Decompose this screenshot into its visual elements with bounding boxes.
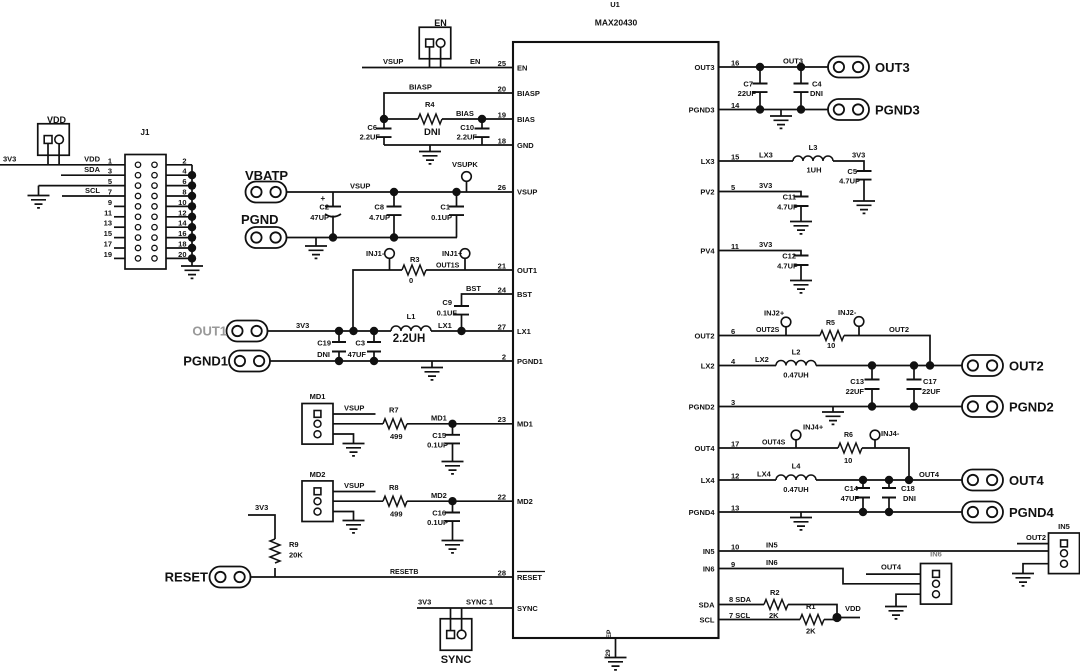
- svg-text:0.1UP: 0.1UP: [427, 441, 448, 450]
- capacitor C13 22UF: [871, 366, 873, 380]
- svg-text:10: 10: [827, 341, 835, 350]
- op-amp U1 MAX20430 IC body: [513, 42, 719, 638]
- wire LX2 pin 4 to L2: [719, 365, 777, 367]
- node INJ2- test point: [854, 317, 864, 327]
- wire PGND4 pin 13 to connector: [719, 511, 962, 513]
- svg-text:VDD: VDD: [845, 604, 861, 613]
- svg-text:SYNC: SYNC: [517, 604, 538, 613]
- capacitor C8 4.7UF: [390, 188, 398, 196]
- wire 3V3 rail to J1 pin1: [0, 164, 125, 166]
- svg-text:PGND2: PGND2: [1009, 400, 1054, 415]
- connector PGND4: [962, 502, 1003, 523]
- svg-text:5: 5: [108, 177, 112, 186]
- svg-text:C13: C13: [850, 377, 864, 386]
- wire L3 to C5 3V3: [833, 161, 864, 171]
- wire LX1 from OUT1 connector to pin 27: [268, 330, 392, 332]
- svg-text:SDA: SDA: [84, 165, 100, 174]
- J1 pin 8 circle: [152, 193, 157, 198]
- svg-text:C1: C1: [440, 203, 450, 212]
- svg-text:C7: C7: [743, 80, 753, 89]
- svg-text:GND: GND: [517, 141, 534, 150]
- junction MD2 C16: [448, 497, 456, 505]
- svg-text:BIAS: BIAS: [456, 109, 474, 118]
- wire MD2 pin1 VSUP: [333, 491, 376, 493]
- wire J1 left stub pin 9: [114, 205, 125, 207]
- wire SYNC jumper pins up: [450, 608, 452, 631]
- svg-text:EN: EN: [470, 57, 480, 66]
- svg-text:3V3: 3V3: [852, 151, 865, 160]
- node INJ2+ test point: [781, 317, 791, 327]
- junction OUT3 C4: [797, 63, 805, 71]
- svg-text:VDD: VDD: [84, 155, 100, 164]
- ground IN6 header: [885, 607, 907, 619]
- capacitor C14 47UF: [862, 480, 864, 488]
- svg-text:OUT1: OUT1: [517, 266, 537, 275]
- svg-text:22UF: 22UF: [922, 387, 941, 396]
- wire OUT4 branch to LX4 node: [862, 448, 909, 480]
- junction LX2 OUT2 branch: [926, 361, 934, 369]
- ground J1 bus: [181, 266, 203, 278]
- wire 3V3 to SYNC jumper: [417, 607, 451, 609]
- wire IN6 header pin3 to ground: [896, 594, 920, 606]
- connector PGND1: [229, 351, 270, 372]
- svg-text:RESET: RESET: [165, 570, 208, 585]
- svg-text:C12: C12: [782, 252, 796, 261]
- capacitor C4 DNI: [800, 67, 802, 84]
- wire VDD jumper pins to 3V3 rail: [47, 144, 49, 165]
- capacitor C16 0.1UF: [452, 501, 454, 512]
- svg-text:U1: U1: [610, 0, 620, 9]
- svg-text:VDD: VDD: [47, 115, 67, 125]
- svg-text:C3: C3: [355, 339, 365, 348]
- svg-text:LX4: LX4: [757, 470, 772, 479]
- svg-text:C16: C16: [432, 509, 446, 518]
- J1 pin 2 circle: [152, 162, 157, 167]
- svg-text:OUT4: OUT4: [694, 444, 715, 453]
- wire PGND3 pin 14 to connector: [719, 109, 829, 111]
- svg-text:INJ4+: INJ4+: [803, 423, 824, 432]
- connector PGND2: [962, 396, 1003, 417]
- junction BIAS left: [380, 115, 388, 123]
- svg-text:2.2UF: 2.2UF: [360, 133, 381, 142]
- svg-text:EP: EP: [606, 629, 613, 638]
- connector MD1 header: [302, 404, 333, 445]
- wire PV4 pin 11 to C12: [719, 251, 802, 256]
- svg-text:RESETB: RESETB: [390, 569, 418, 576]
- junction PGND1 C3: [370, 357, 378, 365]
- svg-text:2K: 2K: [806, 627, 816, 636]
- svg-text:C5: C5: [847, 167, 857, 176]
- node INJ1+ test point: [460, 249, 470, 259]
- wire IN5 header pin3 to ground: [1023, 564, 1049, 574]
- wire MD1 pin2 to R7: [333, 423, 383, 425]
- svg-text:R4: R4: [425, 100, 435, 109]
- resistor R6 10: [838, 443, 862, 453]
- wire L4 to OUT4 connector: [816, 479, 962, 481]
- svg-text:3V3: 3V3: [759, 181, 772, 190]
- wire J1 left stub pin 19: [114, 257, 125, 259]
- svg-text:C8: C8: [374, 203, 384, 212]
- junction PGND2 C17: [910, 402, 918, 410]
- svg-text:IN6: IN6: [703, 565, 715, 574]
- svg-text:R1: R1: [806, 602, 816, 611]
- svg-text:INJ1-: INJ1-: [366, 249, 385, 258]
- svg-text:OUT4: OUT4: [881, 563, 902, 572]
- svg-text:1: 1: [108, 156, 112, 165]
- resistor R8 499: [383, 496, 407, 506]
- capacitor C7 22UF: [759, 67, 761, 84]
- svg-text:1UH: 1UH: [806, 166, 821, 175]
- svg-text:OUT3: OUT3: [694, 63, 714, 72]
- wire SCL to J1 pin7: [62, 195, 125, 197]
- svg-text:L2: L2: [792, 348, 801, 357]
- connector OUT2: [962, 355, 1003, 376]
- svg-text:MD1: MD1: [517, 420, 533, 429]
- junction PGND3 C7: [756, 105, 764, 113]
- svg-text:LX3: LX3: [759, 151, 773, 160]
- U1 RESET pin overbar: [517, 571, 545, 573]
- svg-text:PGND3: PGND3: [875, 103, 920, 118]
- svg-text:C11: C11: [783, 193, 796, 202]
- svg-text:L4: L4: [792, 462, 802, 471]
- capacitor C2 47UF polarized: [332, 192, 334, 207]
- svg-text:4.7UP: 4.7UP: [777, 262, 798, 271]
- ground PGND2: [832, 407, 834, 413]
- wire J1 right pins to ground bus: [166, 164, 192, 166]
- svg-text:C2: C2: [319, 203, 329, 212]
- svg-text:L3: L3: [809, 143, 818, 152]
- svg-text:SCL: SCL: [700, 616, 715, 625]
- ground C5: [853, 201, 875, 213]
- junction PGND1 C19: [335, 357, 343, 365]
- svg-text:0.1UF: 0.1UF: [437, 309, 458, 318]
- wire EN jumper pins down: [429, 47, 431, 68]
- svg-text:BST: BST: [466, 284, 481, 293]
- J1 pin 9 circle: [135, 204, 140, 209]
- svg-text:C18: C18: [901, 484, 915, 493]
- wire OUT3 pin 16 to connector: [719, 66, 829, 68]
- svg-text:7 SCL: 7 SCL: [729, 611, 751, 620]
- connector EN jumper: [419, 27, 451, 59]
- wire VSUP to EN pin 25: [362, 67, 513, 69]
- svg-text:10: 10: [844, 456, 852, 465]
- svg-text:VSUP: VSUP: [383, 57, 403, 66]
- junction PGND3 C4: [797, 105, 805, 113]
- svg-text:22UF: 22UF: [738, 89, 757, 98]
- svg-text:MD2: MD2: [310, 470, 326, 479]
- wire R1 to VDD node: [824, 619, 837, 621]
- svg-text:13: 13: [104, 219, 112, 228]
- svg-text:OUT4: OUT4: [1009, 473, 1044, 488]
- svg-text:VSUP: VSUP: [344, 481, 364, 490]
- svg-text:19: 19: [104, 250, 112, 259]
- wire VSUP to pin 26: [287, 191, 514, 193]
- svg-text:47UF: 47UF: [348, 350, 367, 359]
- inductor L4 0.47UH: [776, 475, 816, 480]
- svg-text:3: 3: [108, 167, 112, 176]
- svg-text:C14: C14: [844, 484, 859, 493]
- svg-text:R3: R3: [410, 255, 420, 264]
- svg-text:LX2: LX2: [755, 355, 769, 364]
- svg-text:BIASP: BIASP: [409, 83, 432, 92]
- J1 pin 5 circle: [135, 183, 140, 188]
- junction BIAS right: [478, 115, 486, 123]
- svg-text:INJ2-: INJ2-: [838, 308, 857, 317]
- J1 pin 7 circle: [135, 193, 140, 198]
- svg-text:LX1: LX1: [438, 321, 452, 330]
- capacitor C3 47UF: [373, 331, 375, 342]
- svg-text:R7: R7: [389, 406, 399, 415]
- wire J1 left stub pin 13: [114, 226, 125, 228]
- wire BIAS to pin 19: [482, 118, 513, 120]
- wire PV2 pin 5 to C11: [719, 192, 802, 197]
- wire LX3 pin 15 to L3: [719, 160, 794, 162]
- svg-text:C9: C9: [442, 298, 452, 307]
- svg-text:INJ2+: INJ2+: [764, 309, 785, 318]
- svg-text:3V3: 3V3: [759, 240, 772, 249]
- resistor R5 10: [820, 331, 844, 341]
- wire RESETB to pin 28: [251, 576, 514, 578]
- svg-text:47UP: 47UP: [310, 213, 329, 222]
- ground PGND1: [431, 361, 433, 368]
- svg-text:SCL: SCL: [85, 186, 100, 195]
- wire PGND1 to pin 2: [270, 360, 513, 362]
- svg-text:R6: R6: [844, 432, 853, 439]
- svg-text:VSUPK: VSUPK: [452, 160, 478, 169]
- J1 pin 15 circle: [135, 235, 140, 240]
- svg-text:IN5: IN5: [766, 541, 778, 550]
- svg-text:DNI: DNI: [424, 127, 440, 138]
- svg-text:2.2UH: 2.2UH: [393, 333, 426, 345]
- capacitor C6 2.2UF: [383, 119, 385, 129]
- svg-text:4.7UP: 4.7UP: [369, 213, 390, 222]
- wire SDA pin 8 to R2: [719, 604, 765, 606]
- capacitor C17 22UF: [913, 366, 915, 380]
- connector OUT1: [227, 321, 268, 342]
- svg-text:OUT2: OUT2: [1009, 359, 1044, 374]
- svg-text:VSUP: VSUP: [350, 182, 370, 191]
- wire OUT2S pin 6 to R5: [719, 335, 821, 337]
- resistor R9 20K: [270, 539, 280, 563]
- wire VDD stub: [837, 617, 860, 619]
- svg-text:RESET: RESET: [517, 573, 542, 582]
- junction J1 bus: [188, 192, 196, 200]
- J1 pin 4 circle: [152, 173, 157, 178]
- svg-text:OUT2: OUT2: [1026, 533, 1046, 542]
- junction J1 bus: [188, 202, 196, 210]
- wire OUT4S pin 17 to R6: [719, 447, 839, 449]
- wire LX4 pin 12 to L4: [719, 479, 777, 481]
- svg-text:INJ1+: INJ1+: [442, 249, 463, 258]
- junction J1 bus: [188, 223, 196, 231]
- svg-text:26: 26: [498, 183, 506, 192]
- svg-text:MD1: MD1: [310, 392, 326, 401]
- svg-text:7: 7: [108, 188, 112, 197]
- svg-text:C19: C19: [317, 339, 331, 348]
- svg-text:IN6: IN6: [930, 550, 942, 559]
- svg-text:INJ4-: INJ4-: [881, 429, 900, 438]
- svg-text:R8: R8: [389, 483, 399, 492]
- junction LX2 C17: [910, 361, 918, 369]
- svg-text:0.47UH: 0.47UH: [783, 485, 808, 494]
- J1 pin 6 circle: [152, 183, 157, 188]
- wire J1 left stub pin 15: [114, 237, 125, 239]
- svg-text:LX3: LX3: [701, 157, 715, 166]
- wire SCL pin 7 to R1: [719, 619, 801, 621]
- junction VDD pullup node: [832, 613, 841, 622]
- svg-text:MD2: MD2: [517, 497, 533, 506]
- capacitor C11 4.7UF: [794, 197, 809, 207]
- wire L2 to OUT2 connector: [816, 365, 962, 367]
- svg-text:4.7UP: 4.7UP: [777, 203, 798, 212]
- svg-text:LX1: LX1: [517, 327, 531, 336]
- junction PGND2 C13: [868, 402, 876, 410]
- svg-text:EN: EN: [517, 64, 527, 73]
- ground C12: [790, 281, 812, 293]
- connector J1 header: [125, 155, 166, 270]
- connector VDD jumper: [38, 124, 70, 156]
- capacitor C9 0.1UF: [454, 306, 469, 315]
- junction J1 bus: [188, 171, 196, 179]
- svg-text:LX2: LX2: [701, 362, 715, 371]
- J1 pin 3 circle: [135, 173, 140, 178]
- svg-text:R5: R5: [826, 320, 835, 327]
- ground IN5 header: [1012, 574, 1034, 586]
- connector PGND input: [246, 227, 287, 248]
- svg-text:0.1UP: 0.1UP: [427, 518, 448, 527]
- ground at 3V3/J1 area: [38, 186, 40, 196]
- svg-text:OUT4: OUT4: [919, 470, 940, 479]
- junction J1 bus: [188, 244, 196, 252]
- junction LX4 C18: [885, 476, 893, 484]
- capacitor C19 DNI: [338, 331, 340, 342]
- resistor R4: [384, 118, 418, 120]
- svg-text:VBATP: VBATP: [245, 168, 288, 183]
- svg-text:OUT3: OUT3: [875, 60, 910, 75]
- wire J1 ground bus vertical: [191, 165, 193, 266]
- junction LX1 C19: [335, 327, 343, 335]
- ground PGND3: [780, 110, 782, 117]
- svg-text:VSUP: VSUP: [517, 188, 537, 197]
- wire 3V3 to R9: [248, 515, 275, 539]
- svg-text:23: 23: [498, 415, 506, 424]
- wire R9 to RESETB: [274, 568, 276, 577]
- junction J1 bus: [188, 213, 196, 221]
- junction LX1 C9: [457, 327, 465, 335]
- svg-text:47UF: 47UF: [841, 494, 860, 503]
- svg-text:IN5: IN5: [1058, 522, 1070, 531]
- J1 pin 17 circle: [135, 245, 140, 250]
- J1 pin 13 circle: [135, 225, 140, 230]
- wire GND to pin 18: [384, 144, 513, 146]
- wire MD1 pin3 to ground: [333, 434, 354, 444]
- wire MD2 pin2 to R8: [333, 500, 383, 502]
- wire OUT1S to pin 21: [353, 270, 402, 331]
- ground C16: [442, 541, 464, 553]
- svg-text:3V3: 3V3: [3, 155, 16, 164]
- svg-text:PGND1: PGND1: [517, 357, 543, 366]
- ground MD2 pin3: [343, 521, 365, 533]
- svg-text:C4: C4: [812, 80, 822, 89]
- wire J1 left stub pin 11: [114, 216, 125, 218]
- svg-text:3V3: 3V3: [296, 321, 309, 330]
- svg-text:OUT2: OUT2: [694, 332, 714, 341]
- svg-text:SDA: SDA: [699, 601, 715, 610]
- J1 pin 16 circle: [152, 235, 157, 240]
- capacitor C5 4.7UF: [857, 171, 872, 180]
- connector VBATP: [246, 182, 287, 203]
- svg-text:0.47UH: 0.47UH: [783, 371, 808, 380]
- svg-text:0.1UP: 0.1UP: [431, 213, 452, 222]
- wire BIASP pin 20: [384, 93, 513, 119]
- svg-text:499: 499: [390, 432, 403, 441]
- capacitor C15 0.1UF: [452, 424, 454, 435]
- junction LX4 OUT4 branch: [905, 476, 913, 484]
- wire IN6 pin 9 routing: [719, 569, 921, 584]
- svg-text:OUT1: OUT1: [192, 324, 227, 339]
- node VSUPK test point: [462, 172, 472, 182]
- capacitor C12 4.7UF: [794, 256, 809, 266]
- node INJ4+ test point: [791, 430, 801, 440]
- junction C2 bottom: [329, 233, 337, 241]
- J1 pin 20 circle: [152, 256, 157, 261]
- svg-text:8 SDA: 8 SDA: [729, 595, 752, 604]
- svg-text:OUT4S: OUT4S: [762, 440, 786, 447]
- node INJ4- test point: [870, 430, 880, 440]
- svg-text:PGND3: PGND3: [689, 106, 715, 115]
- resistor R7 499: [383, 419, 407, 429]
- svg-text:BIAS: BIAS: [517, 115, 535, 124]
- svg-text:OUT2S: OUT2S: [756, 327, 780, 334]
- svg-text:BIASP: BIASP: [517, 89, 540, 98]
- svg-text:9: 9: [108, 198, 112, 207]
- svg-text:PV2: PV2: [700, 188, 714, 197]
- connector MD2 header: [302, 481, 333, 522]
- wire MD1 pin1 VSUP: [333, 413, 376, 415]
- junction PGND4 C18: [885, 508, 893, 516]
- svg-text:SYNC: SYNC: [441, 654, 472, 666]
- ground on GND net: [429, 145, 431, 152]
- svg-text:LX4: LX4: [701, 476, 716, 485]
- svg-text:SYNC 1: SYNC 1: [466, 598, 493, 607]
- wire MD1 net to pin 23: [407, 423, 513, 425]
- wire OUT2 branch to LX2 node: [844, 336, 930, 366]
- svg-text:EN: EN: [434, 18, 447, 28]
- J1 pin 1 circle: [135, 162, 140, 167]
- svg-text:29: 29: [605, 649, 612, 657]
- svg-text:PGND4: PGND4: [689, 508, 716, 517]
- wire BST to pin 24: [462, 294, 514, 306]
- junction J1 bus: [188, 233, 196, 241]
- ground PGND4: [800, 512, 802, 518]
- svg-text:C6: C6: [367, 123, 377, 132]
- svg-text:DNI: DNI: [317, 350, 330, 359]
- svg-text:OUT2: OUT2: [889, 325, 909, 334]
- svg-text:IN5: IN5: [703, 547, 715, 556]
- ground VSUP filter: [315, 238, 317, 247]
- wire J1 left stub pin 17: [114, 247, 125, 249]
- svg-text:22: 22: [498, 493, 506, 502]
- svg-text:20K: 20K: [289, 551, 303, 560]
- svg-text:C17: C17: [923, 377, 937, 386]
- svg-text:J1: J1: [141, 128, 150, 137]
- svg-text:17: 17: [104, 240, 112, 249]
- svg-text:PGND4: PGND4: [1009, 505, 1055, 520]
- svg-text:4.7UP: 4.7UP: [839, 177, 860, 186]
- J1 pin 10 circle: [152, 204, 157, 209]
- wire PGND bottom bus: [287, 237, 458, 239]
- J1 pin 18 circle: [152, 245, 157, 250]
